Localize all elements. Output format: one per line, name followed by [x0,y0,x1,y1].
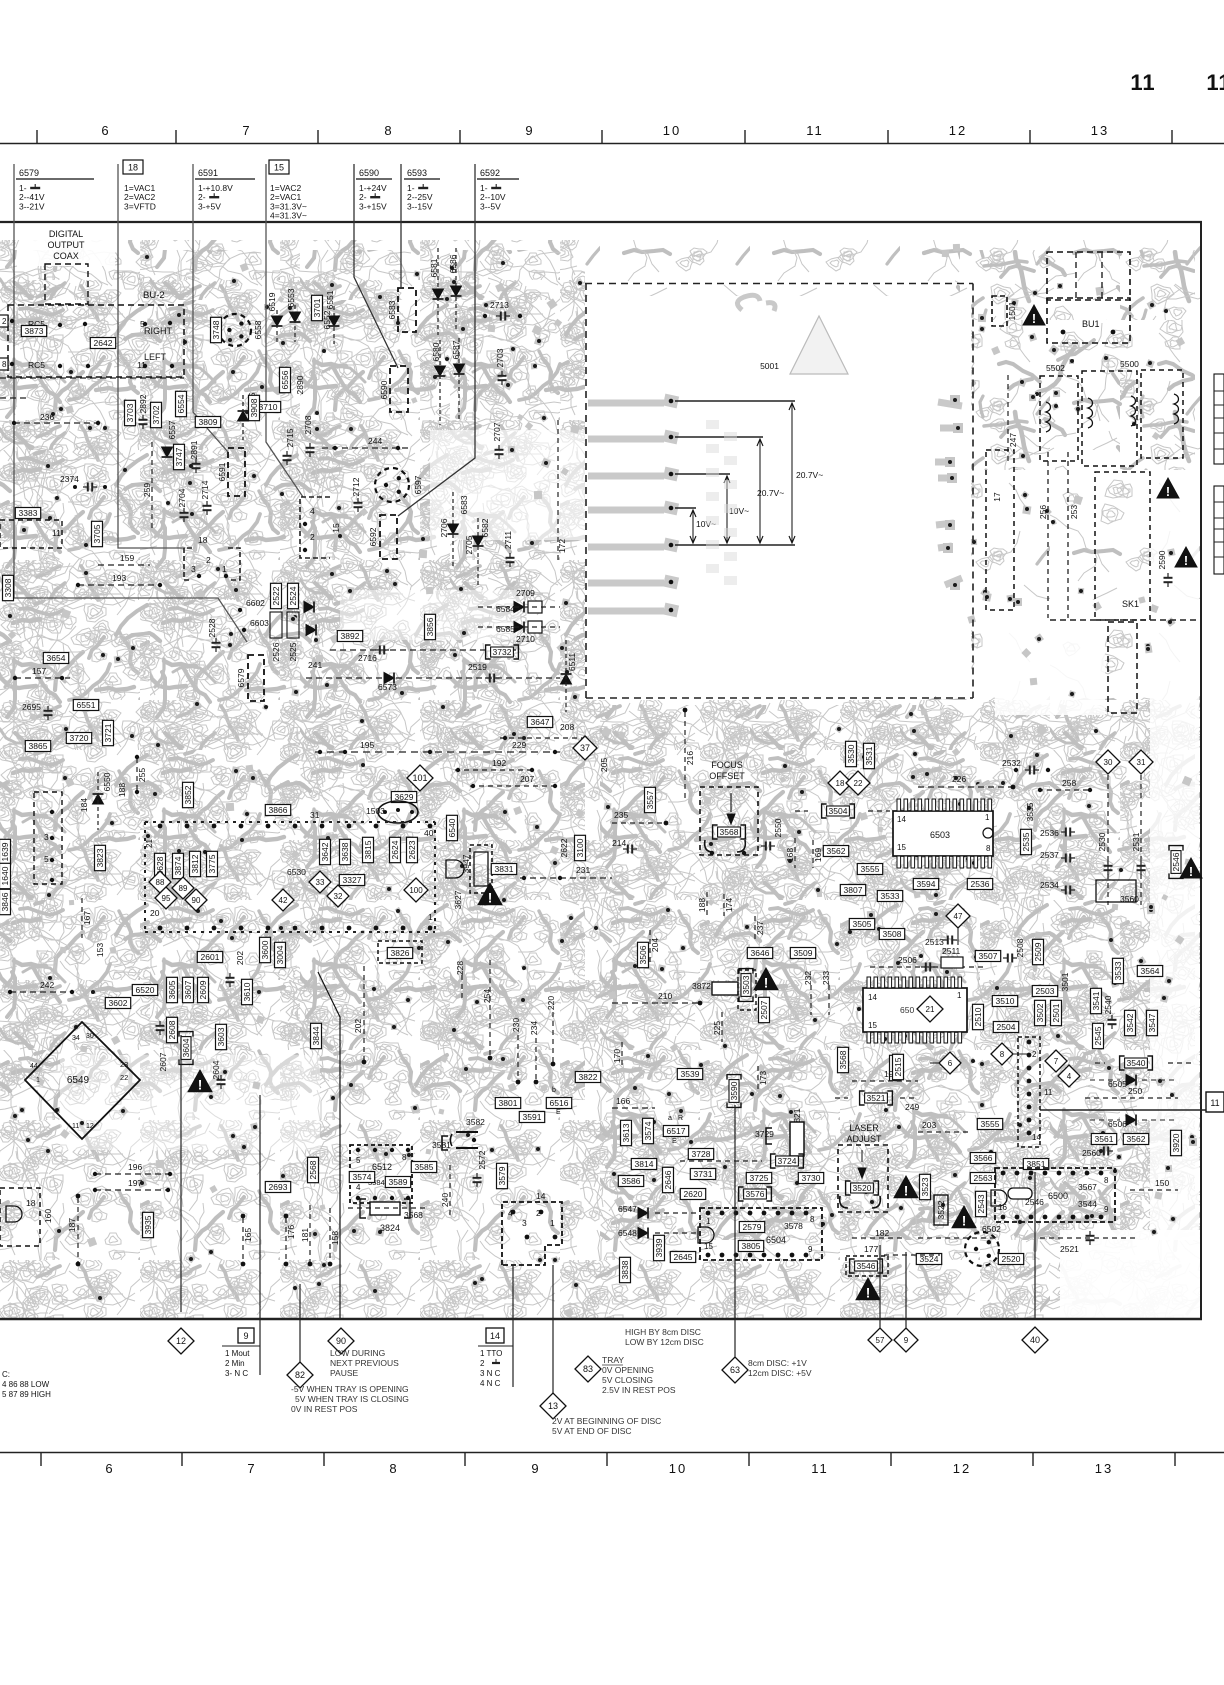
svg-text:6: 6 [105,1461,114,1476]
svg-text:5001: 5001 [760,361,779,371]
svg-text:234: 234 [529,1021,539,1035]
footer table 14 [478,1328,513,1388]
resistor 3705 [92,521,103,546]
svg-text:1501: 1501 [1007,301,1017,320]
wire to diamond 40 [1034,1172,1036,1318]
svg-text:18: 18 [128,163,138,173]
wire 197 [95,1189,168,1191]
svg-text:6548: 6548 [618,1228,637,1238]
svg-text:226: 226 [952,774,966,784]
resistor 3508 [879,929,904,940]
svg-text:10: 10 [663,123,681,138]
svg-text:12cm DISC: +5V: 12cm DISC: +5V [748,1368,812,1378]
connector 6579 dashed box [248,655,264,701]
svg-text:3504: 3504 [829,806,848,816]
svg-text:6516: 6516 [550,1098,569,1108]
svg-text:13: 13 [548,1401,558,1411]
svg-text:2501: 2501 [1051,1003,1061,1022]
resistor 2543 [976,1191,987,1216]
svg-text:3502: 3502 [1035,1003,1045,1022]
svg-text:21: 21 [926,1005,935,1014]
svg-text:3838: 3838 [620,1260,630,1279]
svg-text:2536: 2536 [971,879,990,889]
svg-text:2645: 2645 [674,1252,693,1262]
svg-text:256: 256 [1038,505,1048,519]
svg-text:3589: 3589 [389,1177,408,1187]
svg-text:166: 166 [616,1096,630,1106]
svg-text:230: 230 [511,1018,521,1032]
svg-text:2534: 2534 [1040,880,1059,890]
resistor 3602 [105,998,130,1009]
wire sk1 dashed [1050,619,1196,621]
transistor 6551 [73,700,98,711]
resistor 3327 [339,875,364,886]
svg-text:6580: 6580 [431,342,441,361]
svg-text:3702: 3702 [151,405,161,424]
laser adjust dashed box [838,1145,888,1212]
diode 6573 [384,673,394,684]
capacitor 2525 [287,612,299,638]
wire 15 feeder [266,164,303,497]
svg-text:11: 11 [811,1461,829,1476]
resistor 2623 [407,837,418,862]
resistor 2504 [993,1022,1018,1033]
svg-text:2507: 2507 [759,1000,769,1019]
resistor 3748 [211,317,222,342]
svg-text:2601: 2601 [201,952,220,962]
resistor 3507 [975,951,1000,962]
wire 6591 feeder [193,164,228,452]
svg-text:3501: 3501 [1060,972,1070,991]
svg-text:8cm DISC: +1V: 8cm DISC: +1V [748,1358,807,1368]
svg-text:17: 17 [992,492,1002,502]
svg-text:1: 1 [550,1218,555,1228]
svg-text:6504: 6504 [766,1235,786,1245]
power section dashed outline [585,283,973,698]
resistor 3555 [977,1119,1002,1130]
svg-text:5V WHEN TRAY IS CLOSING: 5V WHEN TRAY IS CLOSING [295,1394,409,1404]
svg-text:170: 170 [612,1049,622,1063]
svg-text:6553: 6553 [286,288,296,307]
node 31 [1129,750,1153,774]
svg-text:3555: 3555 [861,864,880,874]
wire 6593 feeder [400,164,402,287]
node 82 [287,1362,313,1388]
svg-text:6597: 6597 [413,475,423,494]
svg-text:3826: 3826 [391,948,410,958]
svg-text:192: 192 [492,758,506,768]
svg-text:3--5V: 3--5V [480,201,501,211]
svg-text:3574: 3574 [643,1121,653,1140]
svg-text:18: 18 [198,535,208,545]
svg-text:!: ! [1184,554,1188,568]
svg-text:3710: 3710 [259,402,278,412]
svg-text:3544: 3544 [1078,1199,1097,1209]
resistor 3522 [934,1195,948,1225]
svg-text:3908: 3908 [249,398,259,417]
svg-text:220: 220 [546,996,556,1010]
footer note disc begin [552,1416,661,1436]
svg-text:2695: 2695 [22,702,41,712]
capacitor 2515 [893,1054,904,1079]
svg-text:6500: 6500 [1048,1191,1068,1201]
potentiometer 3732 [486,645,519,659]
resistor 2624 [390,837,401,862]
svg-text:22: 22 [854,779,863,788]
svg-text:1 Mout: 1 Mout [225,1349,250,1358]
svg-text:176: 176 [286,1225,296,1239]
resistor 3720 [66,733,91,744]
svg-text:193: 193 [112,573,126,583]
svg-text:255: 255 [137,768,147,782]
svg-text:3547: 3547 [1147,1013,1157,1032]
resistor 2568 [308,1157,319,1182]
svg-text:3856: 3856 [425,617,435,636]
svg-text:14: 14 [536,1191,546,1201]
warning symbol [1175,547,1197,568]
wire 3540 dashed [1095,1062,1105,1064]
resistor 3585 [411,1162,436,1173]
svg-text:21: 21 [145,839,154,848]
svg-text:9: 9 [525,123,534,138]
svg-text:3873: 3873 [25,326,44,336]
svg-text:11: 11 [52,528,61,538]
ic 6530 dashed box [145,810,435,932]
svg-text:1: 1 [957,991,962,1000]
wire to right margin 11 [1040,1109,1206,1111]
svg-text:249: 249 [905,1102,919,1112]
svg-text:14: 14 [490,1331,500,1341]
node 89 [172,877,194,899]
resistor 2563 [970,1173,995,1184]
footer note tray2 [602,1355,676,1395]
svg-text:4: 4 [310,506,315,516]
resistor 3856 [425,614,436,639]
svg-text:2540: 2540 [1103,995,1113,1014]
svg-text:89: 89 [179,884,188,893]
resistor 3509 [790,948,815,959]
svg-text:3600: 3600 [260,940,270,959]
resistor 2620 [680,1189,705,1200]
resistor 3510 [992,996,1017,1007]
svg-text:E: E [672,1138,677,1145]
wire 182 [900,1237,1138,1239]
svg-text:3-+5V: 3-+5V [198,201,221,211]
potentiometer 3590 [727,1075,741,1108]
svg-text:214: 214 [612,838,626,848]
svg-text:3831: 3831 [495,864,514,874]
potentiometer 3546 [850,1259,883,1273]
resistor 3547 [1147,1010,1158,1035]
svg-text:167: 167 [82,911,92,925]
svg-text:168: 168 [785,848,795,862]
svg-text:202: 202 [353,1019,363,1033]
svg-text:1: 1 [706,1217,711,1226]
svg-text:2528: 2528 [207,618,217,637]
svg-text:R: R [678,1115,683,1122]
svg-text:6556: 6556 [280,370,290,389]
node 95 [155,887,177,909]
svg-text:82: 82 [295,1370,305,1380]
svg-text:11: 11 [72,1123,79,1130]
svg-text:3523: 3523 [920,1177,930,1196]
wire 237 [754,916,756,940]
svg-text:2705: 2705 [464,535,474,554]
wire 208 dashed [500,737,590,739]
svg-text:9: 9 [1104,1205,1109,1214]
svg-text:3603: 3603 [216,1027,226,1046]
svg-text:3- N C: 3- N C [225,1369,248,1378]
transistor 6517 [663,1126,688,1137]
resistor 3574 [643,1118,654,1143]
svg-text:6592: 6592 [368,527,378,546]
svg-text:20: 20 [150,908,160,918]
node 9 [894,1328,918,1352]
board bottom border [0,1318,1202,1320]
svg-text:!: ! [866,1285,871,1300]
svg-text:157: 157 [32,666,46,676]
svg-text:3805: 3805 [742,1241,761,1251]
wire diamond31 dashed [1140,775,1142,905]
resistor 3533 [1113,958,1124,983]
svg-text:2515: 2515 [893,1057,903,1076]
svg-text:34: 34 [72,1035,80,1042]
svg-text:6: 6 [948,1059,953,1068]
resistor 3852 [183,782,194,807]
svg-text:6593: 6593 [407,168,427,178]
dashed wire left 2 [0,397,26,399]
svg-text:2568: 2568 [308,1160,318,1179]
resistor 3562 [1123,1134,1148,1145]
svg-text:3585: 3585 [415,1162,434,1172]
svg-text:3721: 3721 [103,723,113,742]
svg-text:2503: 2503 [1036,986,1055,996]
svg-text:3566: 3566 [974,1153,993,1163]
resistor 3100 [575,835,586,860]
svg-text:3748: 3748 [211,320,221,339]
svg-text:173: 173 [758,1071,768,1085]
svg-text:205: 205 [599,758,609,772]
ic 6500 dashed box [995,1168,1115,1222]
resistor 3866 [265,805,290,816]
svg-text:3627: 3627 [453,890,463,909]
resistor 3503 [739,969,753,1002]
potentiometer 3521 [860,1091,893,1105]
resistor 3844 [311,1023,322,1048]
resistor 2693 [265,1182,290,1193]
svg-text:95: 95 [162,894,171,903]
svg-text:9: 9 [531,1461,540,1476]
svg-text:208: 208 [560,722,574,732]
svg-text:3605: 3605 [167,980,177,999]
svg-text:4 86 88 LOW: 4 86 88 LOW [2,1380,50,1389]
svg-text:232: 232 [803,971,813,985]
node 32 [327,885,349,907]
node 47 [946,904,970,928]
resistor 3603 [216,1024,227,1049]
resistor 3815 [363,837,374,862]
resistor 3702 [151,402,162,427]
resistor 3594 [913,879,938,890]
svg-text:3775: 3775 [207,854,217,873]
resistor 3807 [840,885,865,896]
potentiometer 3604 [179,1032,193,1065]
svg-text:169: 169 [813,848,823,862]
connector 6590 pin table [356,168,392,211]
svg-text:ADJUST: ADJUST [846,1134,882,1144]
svg-text:244: 244 [368,436,382,446]
svg-text:184: 184 [79,798,89,812]
capacitor 2536 [967,879,992,890]
wire 259 [151,442,153,528]
svg-text:6549: 6549 [67,1075,90,1086]
capacitor 2512 [1003,954,1017,963]
svg-text:8: 8 [986,844,991,853]
resistor 3568 [838,1047,849,1072]
svg-text:2506: 2506 [898,955,917,965]
svg-text:12: 12 [86,1123,94,1130]
svg-text:3578: 3578 [784,1221,803,1231]
resistor 2501 [1051,1000,1062,1025]
svg-text:6558: 6558 [253,320,263,339]
resistor 3589 [385,1177,410,1188]
wire 244 [322,447,410,449]
node 33 [309,871,331,893]
svg-text:3506: 3506 [638,945,648,964]
svg-text:14: 14 [897,815,906,824]
svg-text:16: 16 [998,1203,1007,1212]
wire 216 [684,712,686,800]
svg-text:2: 2 [1032,1050,1037,1059]
svg-text:6511: 6511 [567,653,577,672]
svg-text:6573: 6573 [378,682,397,692]
svg-text:2563: 2563 [974,1173,993,1183]
svg-text:229: 229 [512,740,526,750]
svg-text:6590: 6590 [379,380,389,399]
svg-text:9: 9 [904,1336,909,1345]
svg-text:3567: 3567 [1078,1182,1097,1192]
wire 195 [315,751,560,753]
svg-text:6590: 6590 [359,168,379,178]
svg-text:FOCUS: FOCUS [711,760,743,770]
node 101 [407,765,433,791]
resistor 3541 [1091,988,1102,1013]
resistor 3908 [249,395,260,420]
node 6 [939,1052,961,1074]
wire to diamond 13 [552,1265,554,1397]
wire 6585 dashed [478,626,560,628]
svg-text:2374: 2374 [60,474,79,484]
svg-text:236: 236 [40,412,54,422]
svg-text:3852: 3852 [183,785,193,804]
svg-text:1: 1 [222,564,227,574]
wire 169 [812,840,814,868]
svg-text:6551: 6551 [77,700,96,710]
connector 11 dashed box [0,520,62,548]
node 90 [328,1328,354,1354]
resistor 3701 [312,295,323,320]
svg-text:2892: 2892 [138,394,148,413]
svg-text:3701: 3701 [312,298,322,317]
warning symbol [1157,478,1179,499]
svg-text:31: 31 [310,810,320,820]
svg-text:5V AT END OF DISC: 5V AT END OF DISC [552,1426,632,1436]
svg-text:6554: 6554 [176,394,186,413]
svg-text:2623: 2623 [407,840,417,859]
resistor 3814 [631,1159,656,1170]
svg-text:3823: 3823 [95,848,105,867]
node 63 [722,1357,748,1383]
svg-text:216: 216 [685,751,695,765]
svg-text:b: b [552,1087,556,1094]
svg-text:0V IN REST POS: 0V IN REST POS [291,1404,358,1414]
wire 192 [455,769,535,771]
svg-text:225: 225 [712,1021,722,1035]
svg-text:2526: 2526 [271,642,281,661]
svg-text:2579: 2579 [743,1222,762,1232]
svg-text:2522: 2522 [271,586,281,605]
svg-text:6547: 6547 [618,1204,637,1214]
svg-text:9: 9 [243,1331,248,1341]
svg-text:3: 3 [191,564,196,574]
svg-text:7: 7 [242,123,251,138]
svg-text:9: 9 [808,1245,813,1254]
wire 172 [557,420,559,560]
svg-text:15: 15 [868,1021,877,1030]
node 57 [868,1328,892,1352]
svg-text:12: 12 [176,1336,186,1346]
resistor 2509 [1033,939,1044,964]
svg-text:160: 160 [43,1209,53,1223]
potentiometer 3724 [771,1154,804,1168]
svg-text:3814: 3814 [635,1159,654,1169]
svg-text:235: 235 [614,810,628,820]
svg-text:5500: 5500 [1120,359,1139,369]
winding voltage arrows [675,401,823,545]
svg-text:2646: 2646 [663,1170,673,1189]
svg-text:259: 259 [142,483,152,497]
svg-text:2.5V IN REST POS: 2.5V IN REST POS [602,1385,676,1395]
connector 6591 pin table [195,168,255,211]
svg-text:13: 13 [1095,1461,1113,1476]
svg-text:33: 33 [316,878,325,887]
svg-text:196: 196 [128,1162,142,1172]
svg-text:3607: 3607 [183,980,193,999]
footer note 8cm disc [748,1358,812,1378]
svg-text:3747: 3747 [174,447,184,466]
svg-text:3531: 3531 [864,746,874,765]
svg-text:3540: 3540 [1127,1058,1146,1068]
svg-text:-5V WHEN TRAY IS OPENING: -5V WHEN TRAY IS OPENING [291,1384,409,1394]
svg-text:2714: 2714 [200,480,210,499]
wire 235 [612,822,668,824]
svg-text:2509: 2509 [1033,942,1043,961]
wire 240 [449,1165,451,1218]
resistor 3004 [275,942,286,967]
svg-text:6552: 6552 [322,310,332,329]
svg-text:150: 150 [1155,1178,1169,1188]
resistor 3812 [190,851,201,876]
copper ghost C shape [737,295,775,311]
svg-text:0V OPENING: 0V OPENING [602,1365,654,1375]
wire 204 [649,930,651,962]
transformer 5500 dashed box b [1141,370,1183,458]
resistor 2524 [288,583,299,608]
connector 6590 dashed box [390,366,408,412]
resistor 3725 [746,1173,771,1184]
ic 1640 [0,863,11,888]
svg-text:2572: 2572 [477,1150,487,1169]
